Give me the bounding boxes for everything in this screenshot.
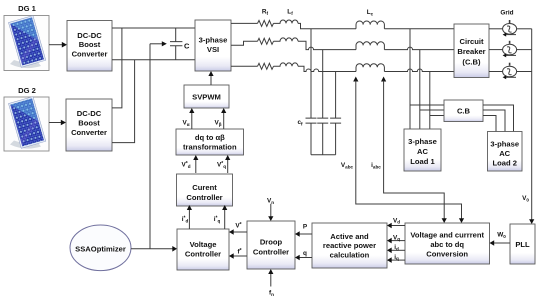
svg-text:Boost: Boost <box>79 40 101 49</box>
arrow abc2dq to Active Vd <box>387 223 405 229</box>
wire load tap phase 2 <box>419 50 421 129</box>
inductor Lc phase 3 <box>356 64 384 72</box>
svg-text:3-phase: 3-phase <box>490 140 519 149</box>
wire capacitor neutral bus <box>311 154 336 156</box>
svg-text:Conversion: Conversion <box>426 249 468 258</box>
wire branch to CB2 phase 1 <box>410 104 444 106</box>
PV panel DG2 <box>4 97 49 151</box>
wire bottom DC rail <box>112 59 195 61</box>
block dq to alpha-beta transformation <box>176 129 244 155</box>
wire load tap phase 3 <box>429 72 431 130</box>
svg-text:C: C <box>184 42 190 51</box>
svg-text:Converter: Converter <box>71 128 107 137</box>
arrow CC to dq-ab right <box>225 155 230 173</box>
capacitor C <box>170 28 182 60</box>
wire branch to CB2 phase 3 <box>430 115 444 117</box>
svg-text:abc to dq: abc to dq <box>430 240 464 249</box>
resistor Rf phase 1 <box>258 20 274 26</box>
block Voltage and current abc to dq Conversion <box>405 223 490 264</box>
svg-text:Curent: Curent <box>192 183 217 192</box>
svg-text:Grid: Grid <box>500 10 513 17</box>
svg-text:transformation: transformation <box>183 142 237 151</box>
svg-text:Breaker: Breaker <box>457 47 485 56</box>
inductor Lc phase 1 <box>356 21 384 29</box>
svg-text:PLL: PLL <box>515 240 530 249</box>
block 3-phase VSI <box>195 20 231 71</box>
svg-text:Droop: Droop <box>260 238 283 247</box>
block 3-phase AC Load 2 <box>488 132 523 172</box>
block DC-DC Boost Converter 2 <box>66 99 112 151</box>
svg-text:reactive power: reactive power <box>323 241 376 250</box>
wire phase 2 to CB with hop <box>384 47 454 50</box>
filter capacitor cf phase 3 <box>330 72 341 155</box>
svg-text:Converter: Converter <box>72 50 108 59</box>
svg-text:DC-DC: DC-DC <box>77 31 102 40</box>
arrow Droop to VC V* <box>229 229 247 235</box>
svg-text:DG 1: DG 1 <box>18 4 37 13</box>
wire boost2 minus link <box>112 60 135 143</box>
block Active and reactive power calculation <box>312 223 387 268</box>
wire top DC rail <box>112 27 195 29</box>
svg-text:DC-DC: DC-DC <box>77 109 102 118</box>
block 3-phase AC Load 1 <box>404 129 441 171</box>
phase line 3: wire from VSI <box>231 63 454 72</box>
phase line 2: wire from VSI <box>231 38 454 50</box>
arrow Droop to VC f* <box>229 253 247 259</box>
wire load tap phase 1 <box>409 29 411 129</box>
arrow abc2dq to Active Vq <box>387 238 405 244</box>
wire CB2 to Load2 phase 3 <box>483 116 496 132</box>
probe iabc measurement line <box>381 77 447 224</box>
svg-text:(C.B): (C.B) <box>462 58 481 67</box>
Vdc probe arrow at capacitor <box>150 41 167 46</box>
svg-text:P: P <box>303 224 308 231</box>
svg-text:Controller: Controller <box>185 250 221 259</box>
wire CB2 to Load2 phase 2 <box>483 110 505 132</box>
block Droop Controller <box>247 221 295 269</box>
inductor Lf phase 1 <box>274 20 299 23</box>
arrow SVPWM to VSI <box>208 71 213 85</box>
wire DG1 to boost1 with arrow <box>49 42 67 48</box>
PV panel DG1 <box>4 16 49 71</box>
svg-text:DG 2: DG 2 <box>18 86 36 95</box>
arrow abc2dq to Active id <box>387 248 405 254</box>
wire branch to CB2 phase 2 <box>420 109 444 111</box>
arrow VC to CC right <box>222 205 227 229</box>
svg-text:3-phase: 3-phase <box>199 36 228 45</box>
probe Vabc measurement line <box>353 77 464 224</box>
arrow Vn into Droop top <box>268 204 273 221</box>
block Curent Controller <box>177 174 233 206</box>
filter capacitor cf phase 1 <box>306 29 317 155</box>
wire Vdc feedback down to voltage controller <box>149 44 151 249</box>
grid AC source 2 <box>489 41 532 58</box>
wire CB2 to Load2 phase 1 <box>483 105 514 132</box>
svg-text:AC: AC <box>417 147 428 156</box>
svg-text:q: q <box>303 250 307 257</box>
arrow Active to Droop P <box>295 231 312 237</box>
arrow dq-ab to SVPWM right <box>221 108 226 129</box>
arrow Active to Droop q <box>295 255 312 261</box>
arrow fn into Droop bottom <box>268 269 273 287</box>
filter capacitor cf phase 2 <box>317 50 328 155</box>
svg-text:Voltage and currrent: Voltage and currrent <box>410 231 484 240</box>
svg-text:dq to αβ: dq to αβ <box>195 133 225 142</box>
arrow SSA to Voltage Controller <box>131 246 177 252</box>
block SVPWM <box>184 85 229 108</box>
wire phase 2 step and hop <box>298 41 356 49</box>
block Circuit Breaker CB1 <box>454 24 489 78</box>
resistor Rf phase 3 <box>258 63 274 69</box>
arrow CC to dq-ab left <box>193 155 198 173</box>
svg-text:SSAOptimizer: SSAOptimizer <box>75 245 126 254</box>
wire phase 3 to CB with hops <box>384 69 454 72</box>
resistor Rf phase 2 <box>258 38 274 44</box>
grid AC source 3 <box>489 63 532 80</box>
svg-text:Voltage: Voltage <box>190 240 217 249</box>
svg-text:Boost: Boost <box>78 119 100 128</box>
wire boost2 plus link <box>112 28 122 108</box>
inductor Lc phase 2 <box>356 42 384 50</box>
svg-text:calculation: calculation <box>330 251 370 260</box>
ellipse SSA Optimizer <box>70 225 131 271</box>
svg-text:AC: AC <box>499 149 510 158</box>
phase line 1: wire from VSI <box>231 20 454 29</box>
DC bus wires <box>112 28 195 143</box>
svg-text:Controller: Controller <box>186 193 222 202</box>
svg-text:Circuit: Circuit <box>459 37 484 46</box>
svg-text:SVPWM: SVPWM <box>192 93 221 102</box>
svg-text:Load 2: Load 2 <box>492 159 516 168</box>
block DC-DC Boost Converter 1 <box>67 21 112 72</box>
arrow VC to CC left <box>187 205 192 229</box>
wire phase 1 step <box>298 23 356 28</box>
wire phase 3 step and hops <box>298 66 356 71</box>
wire grid bus down to PLL <box>529 29 534 224</box>
svg-text:3-phase: 3-phase <box>408 137 437 146</box>
svg-text:Controller: Controller <box>253 247 289 256</box>
wire DG2 to boost2 with arrow <box>49 120 66 126</box>
svg-text:C.B: C.B <box>457 107 471 116</box>
wire phase 1 to CB <box>384 28 454 30</box>
block CB2 <box>444 100 483 122</box>
svg-text:Load 1: Load 1 <box>410 157 435 166</box>
svg-text:VSI: VSI <box>207 45 219 54</box>
svg-text:Active and: Active and <box>330 232 369 241</box>
arrow dq-ab to SVPWM left <box>189 108 194 129</box>
grid AC source 1 <box>489 20 532 37</box>
inductor Lf phase 2 <box>274 38 299 41</box>
arrow abc2dq to Active iq <box>387 257 405 263</box>
block Voltage Controller <box>177 229 229 270</box>
block PLL <box>510 224 535 264</box>
inductor Lf phase 3 <box>274 63 299 66</box>
arrow PLL to abc2dq W0 <box>490 240 511 246</box>
